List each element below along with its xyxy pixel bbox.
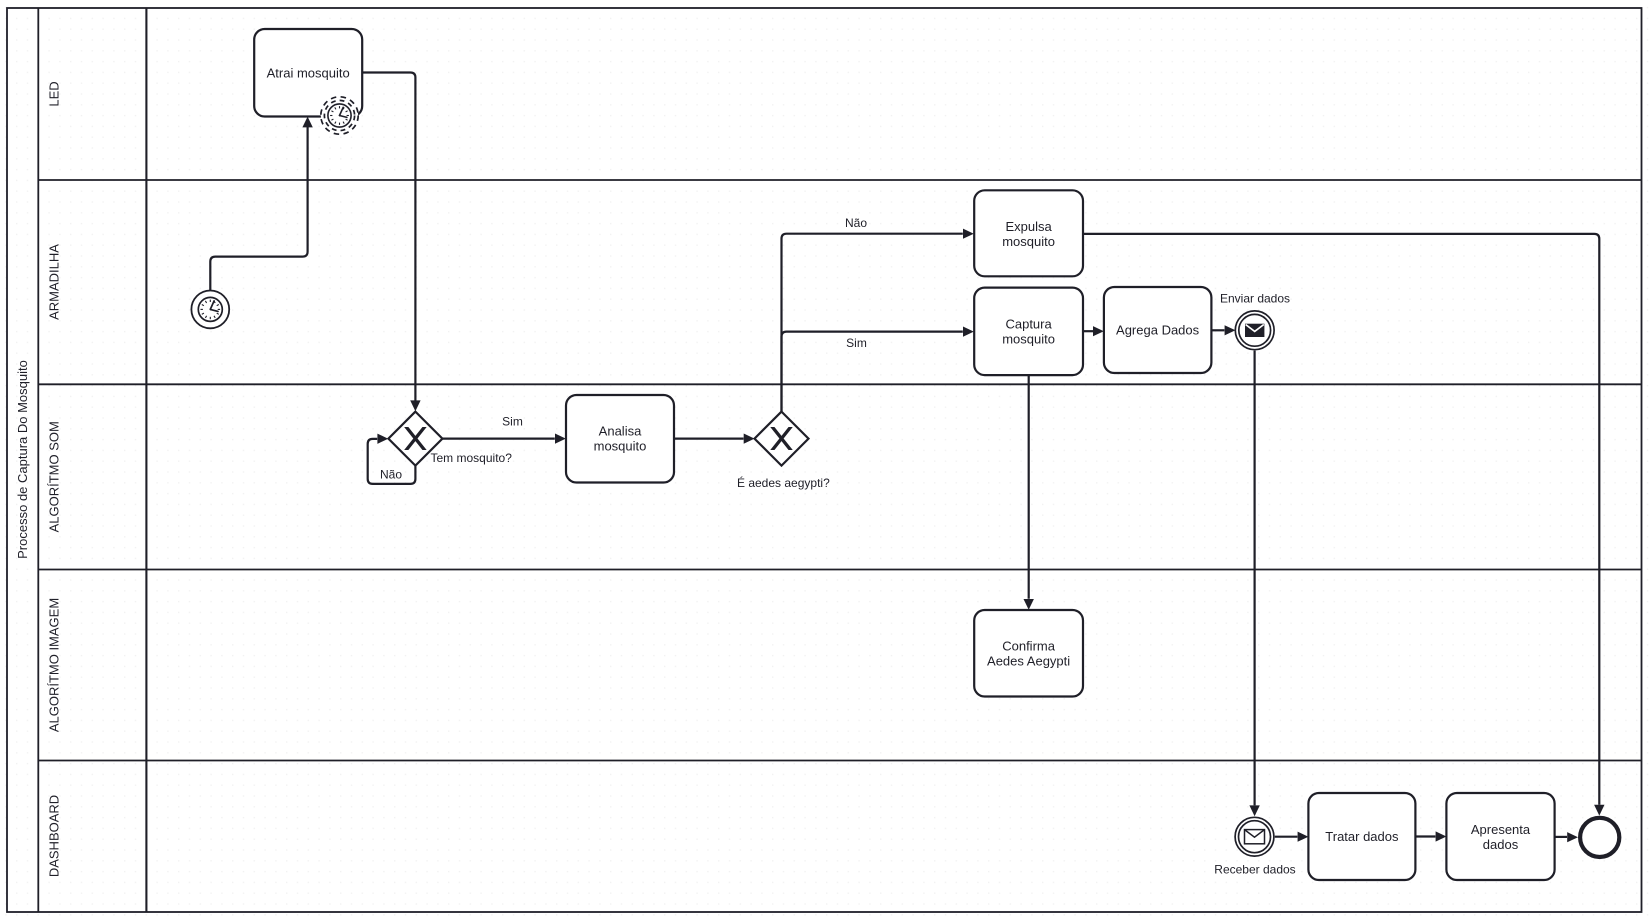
wire task Expulsa mosquito to end event xyxy=(1083,234,1604,816)
end event xyxy=(1580,818,1619,857)
svg-text:mosquito: mosquito xyxy=(1002,332,1055,347)
pool title label xyxy=(15,360,30,559)
lane label ARMADILHA xyxy=(47,244,62,320)
svg-text:Tratar dados: Tratar dados xyxy=(1325,829,1399,844)
task Captura mosquito xyxy=(974,288,1083,376)
label Receber dados xyxy=(1214,862,1295,876)
wire event Receber dados to task Tratar dados xyxy=(1275,832,1309,842)
svg-text:mosquito: mosquito xyxy=(594,439,647,454)
svg-text:Atrai mosquito: Atrai mosquito xyxy=(267,65,350,80)
svg-text:É aedes aegypti?: É aedes aegypti? xyxy=(737,475,830,490)
lane label ALGORITMO IMAGEM xyxy=(47,598,62,732)
svg-text:Confirma: Confirma xyxy=(1002,638,1056,653)
svg-text:LED: LED xyxy=(47,81,62,106)
svg-text:ALGORÍTMO IMAGEM: ALGORÍTMO IMAGEM xyxy=(47,598,62,732)
label Tem mosquito? xyxy=(431,451,513,465)
gateway E aedes aegypti (exclusive) xyxy=(755,412,809,466)
lane divider ARMADILHA/ALGORITMO SOM xyxy=(38,383,1641,385)
lane divider ALGORITMO SOM/ALGORITMO IMAGEM xyxy=(38,569,1641,571)
wire task Captura mosquito to task Agrega Dados xyxy=(1083,326,1103,336)
wire gateway1 to task Analisa mosquito (Sim) xyxy=(443,434,566,444)
svg-text:Não: Não xyxy=(845,216,867,230)
label Nao (to Expulsa) xyxy=(845,216,867,230)
boundary timer event non-interrupting on Atrai mosquito xyxy=(321,97,358,134)
label Sim (gateway1) xyxy=(502,414,523,428)
svg-text:Tem mosquito?: Tem mosquito? xyxy=(431,451,513,465)
task Expulsa mosquito xyxy=(974,190,1083,276)
wire task Tratar dados to task Apresenta dados xyxy=(1415,831,1446,841)
task Agrega Dados xyxy=(1104,287,1212,373)
svg-text:Receber dados: Receber dados xyxy=(1214,862,1295,876)
svg-text:Expulsa: Expulsa xyxy=(1005,219,1052,234)
wire task Agrega Dados to event Enviar dados xyxy=(1211,325,1235,335)
task Atrai mosquito xyxy=(254,29,362,117)
wire task Apresenta dados to end event xyxy=(1555,832,1578,842)
label Enviar dados xyxy=(1220,291,1290,305)
wire gateway1 self loop Nao xyxy=(368,434,416,484)
svg-text:dados: dados xyxy=(1483,837,1519,852)
svg-text:Sim: Sim xyxy=(846,336,867,350)
lane divider ALGORITMO IMAGEM/DASHBOARD xyxy=(38,760,1641,762)
label Sim (to Captura) xyxy=(846,336,867,350)
svg-text:Agrega Dados: Agrega Dados xyxy=(1116,323,1200,338)
svg-text:Apresenta: Apresenta xyxy=(1471,822,1531,837)
lane label ALGORITMO SOM xyxy=(47,421,62,532)
wire task Analisa mosquito to gateway2 xyxy=(675,434,755,444)
task Confirma Aedes Aegypti xyxy=(974,610,1083,697)
lane label DASHBOARD xyxy=(47,795,62,877)
lane label LED xyxy=(47,81,62,106)
wire start timer to task Atrai mosquito xyxy=(210,117,312,291)
svg-text:Aedes Aegypti: Aedes Aegypti xyxy=(987,653,1070,668)
svg-text:mosquito: mosquito xyxy=(1002,234,1055,249)
svg-text:Enviar dados: Enviar dados xyxy=(1220,291,1290,305)
svg-text:Processo de Captura Do Mosquit: Processo de Captura Do Mosquito xyxy=(15,360,30,559)
svg-text:DASHBOARD: DASHBOARD xyxy=(47,795,62,877)
svg-text:ALGORÍTMO SOM: ALGORÍTMO SOM xyxy=(47,421,62,532)
svg-text:Sim: Sim xyxy=(502,414,523,428)
task Tratar dados xyxy=(1308,793,1415,880)
label Nao (self loop) xyxy=(380,468,402,482)
wire task Captura mosquito to task Confirma Aedes Aegypti xyxy=(1024,375,1034,609)
lane divider LED/ARMADILHA xyxy=(38,179,1641,181)
task Apresenta dados xyxy=(1446,793,1554,880)
message catch event Receber dados xyxy=(1235,817,1274,856)
wire event Enviar dados to event Receber dados (message) xyxy=(1249,351,1259,817)
task Analisa mosquito xyxy=(566,395,674,483)
svg-text:Não: Não xyxy=(380,468,402,482)
wire gateway2 to task Expulsa mosquito (Nao) xyxy=(782,229,974,412)
label E aedes aegypti? xyxy=(737,475,830,490)
gateway Tem mosquito (exclusive) xyxy=(388,412,442,466)
start timer event (ARMADILHA) xyxy=(191,291,229,329)
svg-text:Captura: Captura xyxy=(1005,317,1052,332)
wire task Atrai mosquito to gateway Tem mosquito xyxy=(362,73,420,412)
intermediate throw event Enviar dados xyxy=(1235,311,1274,350)
svg-text:Analisa: Analisa xyxy=(599,424,642,439)
svg-text:ARMADILHA: ARMADILHA xyxy=(47,244,62,320)
wire gateway2 to task Captura mosquito (Sim) xyxy=(782,327,974,412)
